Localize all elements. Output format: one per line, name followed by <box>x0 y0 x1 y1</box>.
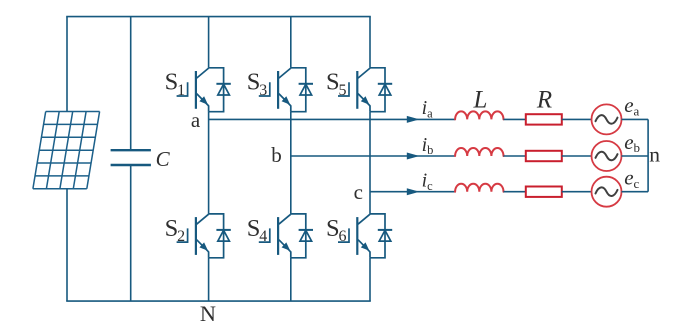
IGBT switch S3 with anti-parallel diode <box>259 68 313 112</box>
svg-text:N: N <box>200 301 216 326</box>
IGBT switch S2 with anti-parallel diode <box>177 214 231 258</box>
AC source e_a <box>592 104 622 134</box>
wire source-bus phase c <box>622 191 649 193</box>
wire leg 3 middle <box>369 112 371 214</box>
wire PV bottom lead <box>66 189 68 301</box>
wire leg 3 lower <box>369 258 371 301</box>
current arrow i_a <box>407 116 420 123</box>
svg-text:C: C <box>156 147 171 171</box>
wire leg 1 middle <box>208 112 210 214</box>
resistor R phase a <box>526 114 562 124</box>
wire inductor-resistor phase c <box>504 191 526 193</box>
IGBT switch S4 with anti-parallel diode <box>259 214 313 258</box>
AC source e_c <box>592 177 622 207</box>
wire phase a <box>209 118 456 120</box>
wire leg 2 lower <box>290 258 292 301</box>
wire leg 1 upper <box>208 17 210 68</box>
wire inductor-resistor phase b <box>504 155 526 157</box>
capacitor C plates <box>111 149 151 151</box>
svg-text:n: n <box>649 142 660 166</box>
wire phase b <box>291 155 455 157</box>
wire resistor-source phase a <box>562 118 592 120</box>
svg-text:b: b <box>271 143 282 167</box>
wire neutral bus <box>647 119 649 191</box>
wire top DC rail <box>66 16 371 18</box>
inductor L phase b <box>455 148 503 156</box>
wire leg 2 upper <box>290 17 292 68</box>
wire leg 2 middle <box>290 112 292 214</box>
resistor R phase c <box>526 187 562 197</box>
wire PV top lead <box>66 17 68 112</box>
wire phase c <box>370 191 455 193</box>
inductor L phase a <box>455 111 503 119</box>
svg-text:L: L <box>472 87 487 114</box>
wire source-bus phase a <box>622 118 649 120</box>
svg-text:R: R <box>536 87 552 114</box>
current arrow i_c <box>407 188 420 195</box>
IGBT switch S1 with anti-parallel diode <box>177 68 231 112</box>
wire leg 3 upper <box>369 17 371 68</box>
inductor L phase c <box>455 184 503 192</box>
wire leg 1 lower <box>208 258 210 301</box>
wire resistor-source phase c <box>562 191 592 193</box>
resistor R phase b <box>526 151 562 161</box>
IGBT switch S5 with anti-parallel diode <box>338 68 392 112</box>
AC source e_b <box>592 141 622 171</box>
IGBT switch S6 with anti-parallel diode <box>338 214 392 258</box>
PV array solar panel <box>33 112 100 189</box>
wire bottom DC rail <box>66 300 371 302</box>
wire capacitor top lead <box>130 17 132 151</box>
svg-text:c: c <box>354 180 363 204</box>
wire source-bus phase b <box>622 155 649 157</box>
svg-text:a: a <box>191 108 201 132</box>
wire resistor-source phase b <box>562 155 592 157</box>
wire inductor-resistor phase a <box>504 118 526 120</box>
wire capacitor bottom lead <box>130 165 132 301</box>
current arrow i_b <box>407 153 420 160</box>
